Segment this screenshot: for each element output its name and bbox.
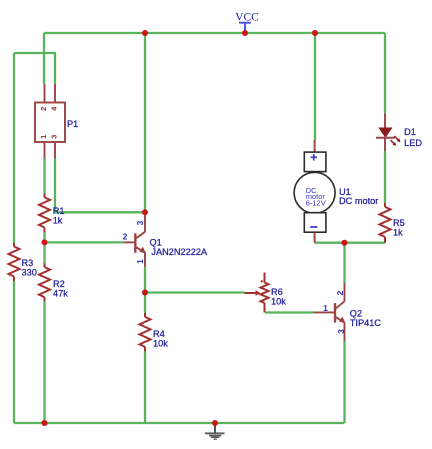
svg-text:10k: 10k [153, 339, 168, 349]
svg-text:1: 1 [135, 259, 145, 264]
svg-text:2: 2 [39, 107, 48, 111]
svg-text:3: 3 [135, 220, 145, 225]
svg-text:R4: R4 [153, 329, 165, 339]
wire motor minus to R5 bottom [315, 242, 385, 244]
wire R1 bottom to node A [43, 232, 45, 263]
wire P1 pin1 down to R1 [43, 158, 45, 194]
svg-text:2: 2 [123, 232, 128, 242]
svg-text:2: 2 [335, 290, 345, 295]
wire R4 bottom to bottom rail [144, 351, 146, 423]
resistor R5 [380, 203, 405, 243]
svg-text:3: 3 [50, 135, 59, 139]
wire R6 bottom to Q2 base [265, 311, 314, 313]
wire P1 pin4 up and left [14, 53, 55, 84]
svg-text:R2: R2 [53, 279, 65, 289]
dot mark [261, 280, 263, 282]
wire rail right to LED [384, 33, 386, 113]
svg-text:1: 1 [39, 135, 48, 139]
resistor R2 [39, 263, 68, 301]
resistor R4 [140, 313, 169, 351]
wire P1 pin2 up to rail [43, 33, 45, 84]
wire Q2 emitter to bottom rail [343, 341, 345, 423]
svg-text:R1: R1 [53, 206, 65, 216]
svg-text:1k: 1k [393, 228, 403, 238]
svg-text:1k: 1k [53, 216, 63, 226]
svg-text:R6: R6 [271, 287, 283, 297]
junction node A [42, 239, 48, 245]
DC motor U1 [294, 140, 378, 243]
wire LED cathode to R5 [384, 151, 386, 203]
resistor R3 [9, 243, 37, 281]
junction node R2-rail [42, 420, 48, 426]
emission arrow 1 [394, 136, 398, 140]
potentiometer R6 [245, 273, 287, 313]
transistor Q2 [314, 283, 382, 341]
wire left column down to R3 [13, 53, 15, 243]
wiper arrow [245, 292, 257, 294]
svg-text:R3: R3 [22, 258, 34, 268]
svg-text:1: 1 [323, 303, 328, 313]
wire P1 pin3 down and right to Q1 collector node [55, 158, 145, 212]
wire bottom rail [14, 422, 345, 424]
svg-text:Q1: Q1 [150, 237, 162, 247]
wire rail to motor plus [314, 33, 316, 140]
wire node B to R6 wiper [145, 291, 245, 293]
svg-text:D1: D1 [404, 127, 416, 137]
svg-text:6-12V: 6-12V [306, 198, 326, 207]
svg-text:3: 3 [336, 329, 346, 334]
wire node B down to R4 [144, 293, 146, 314]
svg-text:Q2: Q2 [350, 309, 362, 319]
svg-text:P1: P1 [67, 119, 78, 129]
wire top rail VCC [44, 32, 385, 34]
svg-text:330: 330 [22, 268, 37, 278]
svg-text:JAN2N2222A: JAN2N2222A [151, 247, 208, 257]
wire rail to Q1 collector [144, 33, 146, 213]
LED D1 [376, 113, 422, 151]
svg-text:TIP41C: TIP41C [350, 318, 382, 328]
junction node B [142, 290, 148, 296]
wire R3 bottom to bottom rail [13, 281, 15, 423]
wire motor node down to Q2 collector [343, 243, 345, 283]
svg-text:LED: LED [404, 138, 422, 148]
ground [205, 423, 225, 440]
transistor Q1 [123, 213, 208, 267]
wire node A to Q1 base [45, 241, 124, 243]
wire R2 bottom to bottom rail [43, 301, 45, 423]
connector P1 [35, 84, 78, 158]
svg-text:10k: 10k [271, 297, 286, 307]
resistor R1 [39, 194, 64, 233]
junction node motor-Q2 [342, 240, 348, 246]
junction node P1pin3-Q1 [142, 209, 148, 215]
power flag VCC [235, 12, 258, 33]
svg-text:DC motor: DC motor [339, 196, 378, 206]
wire Q1 emitter down to node B [144, 267, 146, 293]
emission arrow 2 [391, 140, 394, 143]
junction node rail-Q1 [142, 30, 148, 36]
svg-text:47k: 47k [53, 289, 68, 299]
junction node rail-VCC [242, 30, 248, 36]
junction node ground [212, 420, 218, 426]
svg-text:R5: R5 [393, 218, 405, 228]
junction node rail-motor [312, 30, 318, 36]
